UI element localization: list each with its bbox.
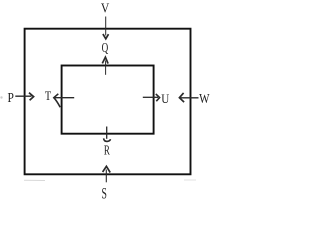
outer rectangle [25, 29, 191, 175]
svg-text:T: T [45, 88, 51, 103]
scan smudge under bottom-right corner [184, 179, 196, 181]
svg-text:R: R [104, 143, 110, 158]
svg-text:Q: Q [102, 40, 109, 55]
arrow from inner box left to T [54, 94, 74, 107]
arrow P right into outer box [15, 93, 33, 101]
arrow S up into outer box [103, 166, 111, 182]
svg-text:W: W [199, 91, 210, 106]
inner rectangle [62, 66, 154, 134]
arrow W left into outer box [179, 93, 198, 102]
svg-text:V: V [101, 1, 109, 16]
scan smudge under bottom-left corner [24, 179, 45, 181]
arrow from inner box down to R [104, 127, 111, 142]
arrow V down into outer box [103, 17, 109, 39]
svg-text:P: P [8, 90, 14, 105]
svg-text:U: U [161, 91, 170, 106]
arrow from inner box right to U [143, 94, 160, 101]
svg-text:S: S [102, 186, 107, 203]
arrow from inner box up to Q [102, 57, 108, 75]
